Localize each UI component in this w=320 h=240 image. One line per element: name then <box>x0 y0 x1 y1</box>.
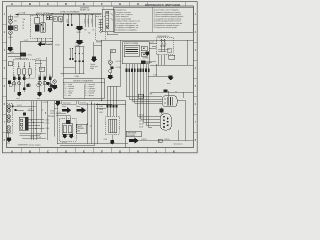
wire: verticals bottom-left mid <box>31 101 57 144</box>
wire: section top rule y=40 <box>102 39 194 41</box>
ground arrow group1 <box>16 92 22 97</box>
heater element unit (rounded) <box>162 96 177 107</box>
fuse block F1 <box>8 25 13 30</box>
wire: top feed line with label 1 СІЗА <box>15 14 96 16</box>
node: dots on bus <box>63 14 64 15</box>
light switch unit box (bottom-left) <box>19 117 28 130</box>
grid letters bottom <box>11 149 176 153</box>
wire: lamp column drop <box>8 133 10 138</box>
ground arrow: side column <box>107 75 114 80</box>
ground arrow: mid (blue) <box>75 26 83 31</box>
extra tiny labels top-left for density <box>8 17 94 39</box>
grid numbers left <box>4 12 6 142</box>
wire: zone bus double line <box>48 13 102 14</box>
battery symbol + ground (band middle) <box>53 80 56 83</box>
switch S2 symbol <box>98 20 102 31</box>
wire: extra short combs above centre bus <box>70 49 72 58</box>
wire: lower stub runs <box>20 133 47 138</box>
switch element 2 <box>23 69 26 74</box>
wire: drops from switch <box>159 55 165 65</box>
junction block dark <box>20 52 26 55</box>
paper background <box>0 0 200 155</box>
lamp circles in fuse strip group1 <box>9 84 12 87</box>
drawing area tint <box>7 6 194 148</box>
wire: branch stubs near x=96-110 bottom <box>96 105 112 108</box>
switch contacts <box>162 39 165 52</box>
rear relay box (dashed) <box>106 117 120 135</box>
wire: feeds inside relay box <box>37 15 45 45</box>
side block <box>8 80 11 83</box>
wires to right switch <box>149 43 157 48</box>
ground arrow below divider left <box>55 101 61 106</box>
lamp in strip <box>13 82 16 85</box>
wire: comb of 4 drops with code labels <box>85 15 96 28</box>
outer border frame <box>2 2 197 153</box>
junction box small <box>39 67 44 71</box>
wire: verticals mid-left <box>41 57 47 78</box>
aux contact beside lamp stack <box>14 26 17 30</box>
switch element 3 <box>28 69 31 74</box>
fuse strip group 2 <box>37 77 53 97</box>
lamp 3 <box>7 115 10 118</box>
ground arrow: mid 2 <box>75 40 83 45</box>
junction square right <box>164 90 168 93</box>
lamp 1 <box>7 105 10 108</box>
small box left of it <box>8 62 12 66</box>
connector comb under motor box: 9 pins, bending right to bundles <box>126 64 162 128</box>
motor aux contacts <box>141 46 147 50</box>
terminal squares on verticals <box>107 105 109 108</box>
grid numbers right <box>195 12 197 142</box>
junction block dark bottom-left <box>14 109 16 111</box>
wire: elbow feed y=45.5 <box>94 45 102 47</box>
lamp 5 <box>7 126 10 129</box>
wire: left drop <box>9 15 11 47</box>
heater switch box (dashed, mid-left) <box>13 60 35 78</box>
wire: from heater to right vertical <box>177 101 186 141</box>
lamp unit: dark cap block <box>66 120 71 123</box>
wire: stub labels right of lamp cluster <box>17 109 35 111</box>
wire: element drops <box>19 62 30 78</box>
lamp unit box with two cells <box>62 124 73 135</box>
fuse symbols on bus <box>53 17 57 22</box>
connector X small pair <box>46 16 49 20</box>
multi-pin connector X2 (oval) <box>160 114 171 130</box>
connector blob right of comb <box>141 60 145 63</box>
switch S2 box (dashed) <box>96 17 106 41</box>
gauge M2 <box>109 69 112 72</box>
junction blob right of lamps <box>12 105 14 107</box>
wire: bottom right run with labels <box>139 140 193 142</box>
lamp circles in fuse strip group2 <box>37 84 40 87</box>
legend table (middle band) <box>63 79 105 98</box>
legend box (component index) <box>114 7 194 32</box>
connector box small above divider right <box>138 94 144 98</box>
wire: extra drops from top bus <box>68 15 72 25</box>
fuse strip group 1 (middle band left) <box>8 77 30 97</box>
power arrow right 3 <box>129 138 139 144</box>
wire: side column drop <box>109 53 111 75</box>
lamp L1 <box>9 20 13 24</box>
grid tick marks left/right <box>2 24 197 132</box>
motor unit box: ЕЛЕКТРОПРИВІД <box>122 42 149 64</box>
power arrow: to consumers (black left arrow) <box>38 42 46 47</box>
relay contact block <box>35 18 40 24</box>
wire: stub labels bottom-left <box>8 54 26 57</box>
mid terminal blobs <box>27 84 30 87</box>
wire: bus y=73.8 <box>60 73 84 75</box>
section divider line <box>7 101 126 105</box>
connector pin terminals (black) <box>126 69 150 73</box>
ground arrow: lamp unit left <box>62 134 68 139</box>
small block top-left column <box>8 16 13 19</box>
lamp L2 <box>9 31 13 35</box>
grid tick marks bottom <box>21 148 165 153</box>
ground arrow: right of run <box>168 76 174 81</box>
grid letters top <box>11 2 139 6</box>
wire: feed labels into lamp unit <box>56 113 70 115</box>
ground arrow: bottom-left <box>6 137 12 142</box>
ground arrow: lamp unit right <box>69 134 75 139</box>
tiny labels above fuse strips <box>13 75 51 100</box>
lamp cluster box (dashed, bottom-left) <box>7 104 13 134</box>
legend rows left column <box>115 10 140 32</box>
junction blob: mid right <box>160 109 164 113</box>
inner border frame <box>7 6 194 148</box>
wire: relay feed bus bottom-right <box>150 91 193 93</box>
legend table divider <box>83 84 85 99</box>
wire: feed from motor box down-left <box>108 40 121 86</box>
wire: right vertical to border bottom <box>177 130 179 141</box>
scan noise overlay <box>0 0 200 155</box>
wire: right-edge vertical tie <box>187 40 189 65</box>
wire: verticals center-bottom <box>88 103 98 146</box>
resistor ladder symbol <box>106 11 109 30</box>
wire: outputs right with labels <box>28 120 44 128</box>
label box: центральний перемикач <box>76 124 86 133</box>
wire: below resistor box <box>107 32 118 35</box>
switch element 1 <box>17 69 20 74</box>
wire bundle upper group labels <box>140 95 144 104</box>
wire: sub-section vertical rule <box>125 104 127 147</box>
relay pin grid <box>41 23 46 33</box>
wire: lower right run <box>148 75 169 77</box>
text block above legend-left box <box>80 8 90 12</box>
dashed box around lamp unit <box>60 119 77 142</box>
wire: labels top of bottom band <box>14 106 36 110</box>
wire bundle lower group labels <box>139 115 145 129</box>
power arrow: down (живлення) <box>93 42 95 57</box>
connector block right small <box>169 55 175 59</box>
wire: elbow from long vertical <box>63 66 75 68</box>
wire: long vertical x=63.4 <box>62 15 64 78</box>
wire: bottom runs <box>57 144 128 146</box>
ground: left bottom arrow <box>7 47 13 52</box>
lamp 4 <box>7 119 10 122</box>
switch unit box (dashed) right <box>157 37 174 54</box>
caption box: перехідна <box>126 131 141 137</box>
grid tick marks top <box>21 2 185 6</box>
terminal block dark <box>110 66 113 69</box>
lamp 6 <box>7 129 10 132</box>
gauge M1 <box>108 60 112 64</box>
node dots on top bus <box>78 14 79 15</box>
junction dots bottom verticals <box>41 109 42 110</box>
wire: horizontal run with elbow down <box>20 42 52 60</box>
motor winding block (hatched) <box>124 45 139 56</box>
junction dots on crossings <box>31 119 32 120</box>
wire: drop to arrows <box>78 15 80 41</box>
ground arrow: right mid <box>144 52 150 56</box>
wire: labels right of box <box>35 60 46 63</box>
legend rows right column <box>154 9 184 30</box>
tiny label column left of relay box <box>23 18 26 30</box>
wire: verticals from top comb continuing <box>108 86 117 117</box>
resistor unit box (left of legend) <box>102 9 114 32</box>
wire: right bus to border <box>150 64 193 66</box>
side sensor group left of motor box <box>111 49 115 52</box>
wire: long vertical x=52.2 <box>51 21 53 77</box>
wire: long vertical divider x=101.5 <box>101 40 103 101</box>
hatch bars inside switch unit <box>25 118 27 130</box>
section caption boxes below divider <box>62 101 76 104</box>
lamp 2 <box>7 109 10 112</box>
contact block dark (switch cap) <box>23 113 26 116</box>
relay box K1 (dashed) <box>30 16 52 39</box>
